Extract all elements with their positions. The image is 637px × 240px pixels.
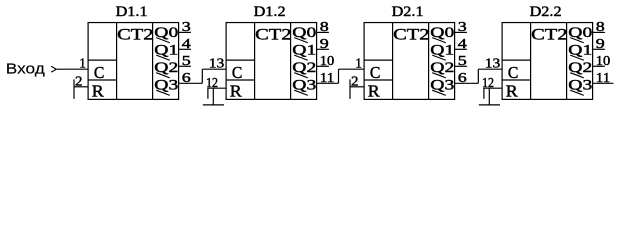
pin number 3 bbox=[182, 19, 191, 34]
svg-text:D1.1: D1.1 bbox=[116, 4, 148, 20]
wire pin 6 (Q3 of D1.1) bbox=[179, 82, 203, 84]
label R input of D2.2 bbox=[506, 82, 518, 101]
svg-text:2: 2 bbox=[75, 74, 83, 89]
label Q0 output of D2.2 bbox=[568, 25, 592, 43]
svg-text:10: 10 bbox=[596, 53, 611, 68]
wire to R pin 2 of D2.1 bbox=[350, 79, 364, 99]
svg-text:13: 13 bbox=[209, 56, 225, 71]
pin number 2 bbox=[75, 74, 83, 89]
counter D2.2 bbox=[502, 23, 592, 100]
label Q2 output of D1.1 bbox=[154, 60, 178, 78]
pin number 1 bbox=[79, 56, 86, 71]
pin number 10 bbox=[596, 53, 611, 68]
pin number 13 bbox=[485, 56, 501, 71]
ground symbol at R pin 12 of D2.2 bbox=[479, 88, 500, 105]
svg-text:1: 1 bbox=[79, 56, 86, 71]
svg-text:R: R bbox=[368, 82, 380, 101]
label Q2 output of D2.1 bbox=[430, 60, 454, 78]
wire pin 3 (Q0 of D1.1) bbox=[179, 31, 191, 33]
label CT2 of D2.2 bbox=[531, 26, 567, 44]
pin number 11 bbox=[596, 70, 611, 85]
label C input of D2.1 bbox=[370, 63, 381, 82]
pin number 13 bbox=[209, 56, 225, 71]
svg-text:C: C bbox=[370, 63, 381, 82]
svg-text:10: 10 bbox=[320, 53, 335, 68]
pin number 1 bbox=[355, 56, 362, 71]
svg-text:R: R bbox=[92, 82, 104, 101]
svg-text:D1.2: D1.2 bbox=[254, 4, 286, 20]
wire pin 6 (Q3 of D2.1) bbox=[455, 82, 479, 84]
label D2.2 bbox=[530, 4, 562, 20]
wire pin 11 (Q3 of D1.2) bbox=[317, 82, 339, 84]
wire to R pin 12 of D1.2 bbox=[207, 88, 226, 99]
svg-text:3: 3 bbox=[182, 19, 191, 34]
input arrow > bbox=[51, 66, 56, 72]
svg-text:11: 11 bbox=[596, 70, 611, 85]
label R input of D2.1 bbox=[368, 82, 380, 101]
pin number 2 bbox=[351, 74, 359, 89]
label D1.2 bbox=[254, 4, 286, 20]
svg-text:4: 4 bbox=[182, 36, 191, 51]
svg-text:12: 12 bbox=[482, 75, 494, 90]
label Q0 output of D2.1 bbox=[430, 25, 454, 43]
label D1.1 bbox=[116, 4, 148, 20]
svg-text:9: 9 bbox=[596, 36, 605, 51]
pin number 6 bbox=[458, 70, 467, 85]
label Q2 output of D2.2 bbox=[568, 60, 592, 78]
wire pin 4 (Q1 of D2.1) bbox=[455, 48, 467, 50]
label Q3 output of D1.1 bbox=[154, 78, 178, 96]
pin number 10 bbox=[320, 53, 335, 68]
wire pin 4 (Q1 of D1.1) bbox=[179, 48, 191, 50]
label CT2 of D1.1 bbox=[117, 26, 153, 44]
label R input of D1.1 bbox=[92, 82, 104, 101]
svg-text:2: 2 bbox=[351, 74, 359, 89]
pin number 12 bbox=[206, 75, 218, 90]
wire to R pin 2 of D1.1 bbox=[74, 79, 88, 99]
svg-text:R: R bbox=[506, 82, 518, 101]
wire pin 11 (Q3 of D2.2) bbox=[593, 82, 614, 84]
svg-text:8: 8 bbox=[596, 19, 605, 34]
svg-text:C: C bbox=[508, 63, 519, 82]
label Q1 output of D1.2 bbox=[292, 43, 316, 61]
wire pin 5 (Q2 of D1.1) bbox=[179, 65, 191, 67]
svg-text:13: 13 bbox=[485, 56, 501, 71]
label Q3 output of D2.1 bbox=[430, 78, 454, 96]
wire pin 3 (Q0 of D2.1) bbox=[455, 31, 467, 33]
label CT2 of D2.1 bbox=[393, 26, 429, 44]
label R input of D1.2 bbox=[230, 82, 242, 101]
pin number 5 bbox=[458, 53, 467, 68]
wire pin 8 (Q0 of D1.2) bbox=[317, 31, 329, 33]
ground symbol at R pin 12 of D1.2 bbox=[203, 88, 224, 105]
svg-text:12: 12 bbox=[206, 75, 218, 90]
svg-text:CT2: CT2 bbox=[255, 26, 291, 44]
wire to C pin 13 of D2.2 bbox=[478, 69, 502, 83]
pin number 3 bbox=[458, 19, 467, 34]
svg-text:CT2: CT2 bbox=[117, 26, 153, 44]
pin number 4 bbox=[182, 36, 191, 51]
pin number 6 bbox=[182, 70, 191, 85]
svg-text:D2.1: D2.1 bbox=[392, 4, 424, 20]
svg-text:8: 8 bbox=[320, 19, 329, 34]
wire pin 9 (Q1 of D2.2) bbox=[593, 48, 605, 50]
svg-text:5: 5 bbox=[182, 53, 191, 68]
svg-text:6: 6 bbox=[182, 70, 191, 85]
svg-text:C: C bbox=[94, 63, 105, 82]
label Q2 output of D1.2 bbox=[292, 60, 316, 78]
svg-text:R: R bbox=[230, 82, 242, 101]
counter D1.2 bbox=[226, 23, 317, 100]
svg-text:5: 5 bbox=[458, 53, 467, 68]
label Q3 output of D2.2 bbox=[568, 78, 592, 96]
counter D2.1 bbox=[364, 23, 455, 100]
label Q1 output of D2.1 bbox=[430, 43, 454, 61]
svg-text:4: 4 bbox=[458, 36, 467, 51]
svg-text:CT2: CT2 bbox=[531, 26, 567, 44]
pin number 8 bbox=[596, 19, 605, 34]
pin number 5 bbox=[182, 53, 191, 68]
svg-text:1: 1 bbox=[355, 56, 362, 71]
label C input of D2.2 bbox=[508, 63, 519, 82]
svg-text:C: C bbox=[232, 63, 243, 82]
wire to R pin 12 of D2.2 bbox=[483, 88, 502, 99]
label Q0 output of D1.1 bbox=[154, 25, 178, 43]
wire pin 10 (Q2 of D1.2) bbox=[317, 65, 329, 67]
pin number 9 bbox=[596, 36, 605, 51]
label Q1 output of D1.1 bbox=[154, 43, 178, 61]
wire to C pin 13 of D1.2 bbox=[202, 69, 226, 83]
svg-text:6: 6 bbox=[458, 70, 467, 85]
label C input of D1.2 bbox=[232, 63, 243, 82]
wire pin 8 (Q0 of D2.2) bbox=[593, 31, 605, 33]
svg-text:CT2: CT2 bbox=[393, 26, 429, 44]
label CT2 of D1.2 bbox=[255, 26, 291, 44]
wire pin 9 (Q1 of D1.2) bbox=[317, 48, 329, 50]
svg-text:3: 3 bbox=[458, 19, 467, 34]
label Q1 output of D2.2 bbox=[568, 43, 592, 61]
wire pin 5 (Q2 of D2.1) bbox=[455, 65, 467, 67]
pin number 9 bbox=[320, 36, 329, 51]
label Q0 output of D1.2 bbox=[292, 25, 316, 43]
pin number 12 bbox=[482, 75, 494, 90]
pin number 4 bbox=[458, 36, 467, 51]
label C input of D1.1 bbox=[94, 63, 105, 82]
svg-text:9: 9 bbox=[320, 36, 329, 51]
counter D1.1 bbox=[88, 23, 179, 100]
pin number 11 bbox=[320, 70, 335, 85]
label Q3 output of D1.2 bbox=[292, 78, 316, 96]
wire pin 10 (Q2 of D2.2) bbox=[593, 65, 605, 67]
svg-text:Вход: Вход bbox=[6, 62, 46, 78]
node Вход (input label) bbox=[6, 62, 46, 78]
wire to C pin 1 of D2.1 bbox=[339, 69, 365, 83]
svg-text:D2.2: D2.2 bbox=[530, 4, 562, 20]
wire to C pin 1 of D1.1 bbox=[0, 0, 1, 1]
wire input to D1.1 pin 1 bbox=[57, 68, 88, 70]
svg-text:11: 11 bbox=[320, 70, 335, 85]
pin number 8 bbox=[320, 19, 329, 34]
label D2.1 bbox=[392, 4, 424, 20]
